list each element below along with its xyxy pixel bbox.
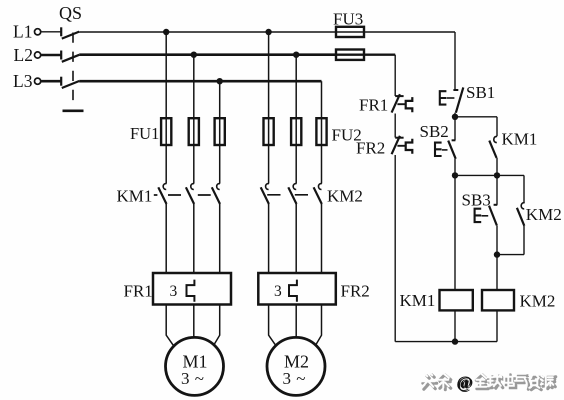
- junction dot L2/M1: [191, 52, 197, 58]
- wire node4 horizontal: [497, 254, 524, 256]
- wire KM2 aux bottom: [523, 226, 525, 255]
- node L3 terminal: [35, 78, 41, 84]
- wire SB3 bottom: [496, 225, 498, 254]
- wire M1 B to FR1: [193, 204, 195, 273]
- wire L2 bus after fuse: [336, 54, 395, 56]
- svg-text:3: 3: [170, 283, 178, 300]
- motor M1: [166, 337, 224, 395]
- wire FR1 to FR2: [394, 114, 396, 138]
- wire M1 C to FR1: [219, 204, 221, 273]
- svg-text:3: 3: [274, 283, 282, 300]
- switch QS pole 1: [61, 27, 79, 38]
- wire L1 bus: [79, 31, 455, 33]
- wire M2 A to FR2: [268, 204, 270, 273]
- svg-text:KM1: KM1: [400, 291, 436, 310]
- contactor KM1 linkage (dashed): [154, 194, 211, 196]
- contactor KM1 main contact A: [158, 184, 166, 204]
- wire M1 phase B drop: [193, 55, 195, 184]
- contactor KM2 main contact C: [314, 184, 322, 204]
- thermal contact FR2 (NC): [392, 136, 413, 154]
- fuse FU3b: [336, 50, 364, 60]
- junction dot L1/M2: [265, 29, 271, 35]
- wire FR1 to motor M1 right: [213, 305, 219, 346]
- svg-text:L2: L2: [14, 45, 33, 65]
- contactor KM2 main contact B: [288, 184, 296, 204]
- wire L3 terminal to QS: [41, 80, 62, 83]
- wire SB1 to node1: [454, 113, 456, 117]
- svg-text:KM1: KM1: [117, 187, 153, 206]
- wire control rail from L1 down to SB1: [454, 32, 456, 90]
- svg-text:KM1: KM1: [502, 130, 538, 149]
- thermal relay FR1 heater box: [153, 273, 231, 305]
- svg-text:SB1: SB1: [466, 83, 495, 102]
- thermal relay FR2 heater symbol: [289, 280, 297, 302]
- wire L1 terminal to QS: [41, 31, 62, 33]
- wire L3 bus: [79, 80, 321, 83]
- wire FR1 to motor M1 left: [166, 305, 174, 346]
- svg-text:FR1: FR1: [359, 96, 388, 115]
- svg-text:FU3: FU3: [333, 10, 363, 29]
- svg-text:SB2: SB2: [420, 122, 449, 141]
- fuse FU2 phase A: [264, 118, 274, 145]
- thermal relay FR2 heater box: [258, 273, 336, 305]
- fuse FU1 phase A: [161, 118, 171, 145]
- wire SB2 bottom to node2: [454, 159, 456, 176]
- junction dot L2/M2: [293, 52, 299, 58]
- pushbutton SB3 (NO): [475, 205, 498, 226]
- fuse FU1 phase C: [215, 118, 225, 145]
- switch QS pole 2: [61, 51, 79, 62]
- switch QS linkage (dashed): [72, 33, 74, 108]
- pushbutton SB1 (NC): [440, 87, 464, 112]
- wire L2 terminal to QS: [41, 54, 62, 57]
- junction dot L1/M1: [163, 29, 169, 35]
- contactor KM1 main contact B: [186, 184, 194, 204]
- svg-text:L1: L1: [13, 21, 32, 41]
- junction dot bottom: [452, 338, 458, 344]
- contactor KM2 linkage (dashed): [267, 194, 308, 196]
- junction dot node1: [452, 114, 458, 120]
- coil KM2: [482, 290, 514, 310]
- fuse FU2 phase B: [291, 118, 301, 145]
- svg-text:FU1: FU1: [130, 124, 159, 143]
- switch QS pole 3: [61, 77, 79, 88]
- motor M2: [267, 337, 325, 395]
- wire L2 bus: [79, 53, 336, 56]
- wire M1 phase A drop: [165, 32, 167, 184]
- wire M2 B to FR2: [295, 204, 297, 273]
- wire KM2 aux top: [523, 175, 525, 203]
- svg-text:FR2: FR2: [356, 139, 385, 158]
- thermal relay FR1 heater symbol: [187, 280, 195, 302]
- svg-text:L3: L3: [13, 71, 33, 91]
- wire node2 down to KM1 coil: [454, 175, 456, 290]
- wire node4 down to KM2 coil: [496, 255, 498, 290]
- junction dot node2: [452, 172, 458, 178]
- wire KM1 coil bottom: [454, 310, 456, 341]
- wire FR2 to motor M2 centre: [295, 305, 297, 338]
- wire FR2 down left rail: [394, 155, 396, 342]
- coil KM1: [440, 290, 473, 310]
- junction dot L3/M1: [217, 78, 223, 84]
- wire FR2 to motor M2 left: [269, 305, 277, 346]
- svg-text:FR1: FR1: [124, 282, 153, 301]
- switch QS linkage end bar: [63, 110, 84, 113]
- wire M2 phase A drop: [268, 32, 270, 184]
- wire KM2 coil bottom: [496, 310, 498, 341]
- svg-text:KM2: KM2: [327, 187, 363, 206]
- junction dot node3: [494, 172, 500, 178]
- svg-text:KM2: KM2: [526, 205, 562, 224]
- wire KM1 aux top: [496, 117, 498, 136]
- fuse FU2 phase C: [316, 118, 326, 145]
- node L1 terminal: [35, 29, 41, 35]
- fuse FU1 phase B: [189, 118, 199, 145]
- thermal contact FR1 (NC): [392, 94, 413, 112]
- svg-text:@: @: [456, 373, 472, 392]
- node L2 terminal: [35, 52, 41, 58]
- svg-text:KM2: KM2: [520, 292, 556, 311]
- svg-text:QS: QS: [59, 3, 82, 23]
- contact KM2 auxiliary (NO): [517, 203, 525, 226]
- wire FR1 to motor M1 centre: [193, 305, 195, 338]
- wire SB2 top: [454, 117, 456, 141]
- contactor KM2 main contact A: [261, 184, 269, 204]
- wire FR2 to motor M2 right: [315, 305, 321, 346]
- fuse FU3a: [336, 27, 364, 37]
- wire control rail from L2 down to FR1 contact: [394, 55, 396, 96]
- svg-text:FR2: FR2: [341, 282, 370, 301]
- wire node2 to KM2 branch: [455, 174, 524, 176]
- svg-text:SB3: SB3: [462, 191, 491, 210]
- wire M1 phase C drop: [219, 81, 221, 183]
- wire M2 phase B drop: [295, 55, 297, 184]
- wire SB3 top: [496, 175, 498, 204]
- pushbutton SB2 (NO): [435, 140, 456, 159]
- contactor KM1 main contact C: [212, 184, 220, 204]
- wire KM1 aux bottom: [496, 158, 498, 175]
- contact KM1 auxiliary (NO): [489, 136, 497, 158]
- wire M1 A to FR1: [165, 204, 167, 273]
- wire node1 to KM1 aux branch: [455, 116, 497, 118]
- wire bottom return: [395, 341, 497, 343]
- wire M2 phase C drop (corner from L3): [321, 81, 323, 183]
- watermark 头条@全球电气资源 (hand-drawn embossed glyph strokes): [421, 373, 556, 393]
- wire M2 C to FR2: [321, 204, 323, 273]
- junction dot node4: [494, 251, 500, 257]
